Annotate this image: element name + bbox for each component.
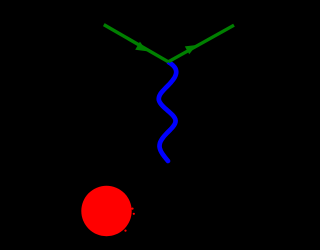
arrow on outgoing fermion line — [185, 45, 197, 54]
photon propagator wavy line — [159, 62, 176, 161]
arrow on incoming fermion line — [135, 42, 147, 52]
wire incoming fermion line e1 — [104, 25, 169, 62]
speck 1 — [131, 208, 133, 210]
speck 3 — [124, 230, 126, 232]
speck 2 — [133, 213, 135, 215]
blob (red circle, hadronic target) — [81, 186, 131, 236]
wire outgoing fermion line e2 — [168, 25, 234, 62]
